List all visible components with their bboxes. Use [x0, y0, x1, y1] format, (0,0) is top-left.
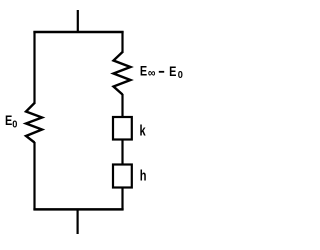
- wire bottom bar: [33, 208, 123, 211]
- label h: [140, 167, 147, 184]
- wire left upper: [33, 31, 35, 104]
- svg-text:E: E: [169, 64, 176, 80]
- wire box k to box h: [121, 139, 123, 165]
- label k: [140, 122, 147, 139]
- wire spring to box k: [121, 94, 123, 118]
- wire left lower: [33, 142, 35, 210]
- label E0: [5, 113, 12, 129]
- box k (friction element): [113, 117, 132, 140]
- svg-text:0: 0: [178, 70, 183, 81]
- box h (friction element): [113, 165, 132, 188]
- label E_inf minus E0: [140, 63, 147, 79]
- svg-text:∞: ∞: [148, 66, 156, 80]
- svg-text:0: 0: [12, 119, 17, 130]
- wire bottom terminal: [76, 209, 78, 234]
- wire top terminal: [77, 10, 79, 33]
- svg-text:E: E: [5, 113, 12, 129]
- wire box h to bottom bar: [121, 187, 123, 210]
- wire top bar: [33, 31, 123, 33]
- svg-text:h: h: [140, 167, 147, 184]
- spring E0: [26, 103, 42, 143]
- wire right upper: [121, 31, 123, 53]
- svg-text:E: E: [140, 63, 147, 79]
- svg-text:k: k: [140, 122, 147, 139]
- spring E_inf minus E0: [114, 52, 131, 95]
